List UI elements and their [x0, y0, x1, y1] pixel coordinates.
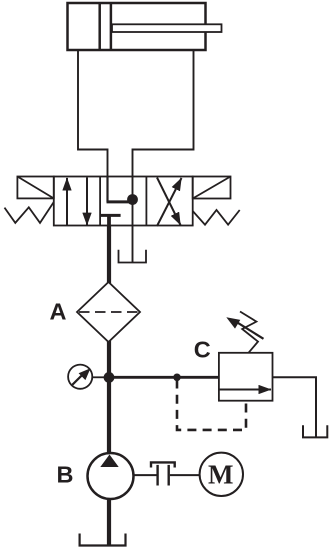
line pump to coupling — [134, 474, 157, 476]
pump B circle — [88, 453, 134, 499]
coupling right shaft plate — [167, 465, 169, 486]
relief valve spring — [240, 312, 258, 353]
blocked P port tee stem — [107, 215, 111, 225]
svg-text:C: C — [194, 337, 211, 363]
pilot tap node — [173, 374, 181, 382]
relief valve flow arrow — [219, 389, 271, 391]
cylinder barrel — [68, 3, 206, 50]
relief valve adjustment arrow — [226, 317, 263, 339]
suction tank symbol — [80, 534, 126, 546]
svg-text:A: A — [50, 299, 67, 325]
motor M circle — [200, 453, 243, 496]
center position B/T drain line to tank — [132, 177, 134, 263]
left position down-flow arrow — [86, 178, 88, 226]
relief tank symbol — [303, 425, 327, 437]
piston line 1 — [98, 3, 101, 50]
center position link to junction — [107, 200, 133, 203]
left return spring — [5, 202, 54, 223]
valve body (3-position envelope) — [54, 177, 193, 226]
right solenoid box — [193, 177, 231, 199]
suction line pump to tank — [107, 498, 111, 546]
center position junction dot — [127, 194, 138, 205]
right position crossed arrow up — [157, 178, 182, 226]
piston line 2 — [110, 3, 113, 50]
valve position divider left — [99, 177, 101, 226]
svg-text:M: M — [208, 460, 233, 490]
pump output triangle — [100, 455, 118, 468]
pressure gauge — [68, 365, 92, 389]
pressure line valve to filter — [107, 226, 111, 284]
left solenoid box — [17, 177, 53, 199]
pilot dashed line — [177, 380, 246, 430]
wire cylinder rod-end to valve port B — [133, 50, 194, 177]
branch line junction to relief valve — [109, 376, 219, 379]
left position up-flow arrow — [66, 178, 68, 226]
blocked P port tee bar — [101, 214, 121, 217]
center position A-port line — [106, 177, 108, 202]
relief outlet line to tank — [273, 377, 317, 436]
coupling left shaft plate — [156, 465, 158, 486]
svg-text:B: B — [57, 462, 74, 488]
line coupling to motor — [170, 474, 200, 476]
relief valve C body — [219, 353, 273, 401]
pressure line filter to pump — [107, 341, 111, 454]
filter element dashed line — [79, 311, 138, 313]
coupling bracket — [151, 462, 175, 467]
right return spring — [193, 210, 240, 225]
gauge stub wire — [92, 376, 107, 378]
valve position divider right — [145, 177, 147, 226]
filter A diamond — [77, 282, 140, 342]
valve tank symbol — [119, 250, 147, 263]
piston rod — [112, 24, 222, 32]
main junction node — [104, 372, 115, 383]
wire cylinder cap-end to valve port A — [78, 50, 108, 177]
right position crossed arrow down — [157, 178, 181, 226]
